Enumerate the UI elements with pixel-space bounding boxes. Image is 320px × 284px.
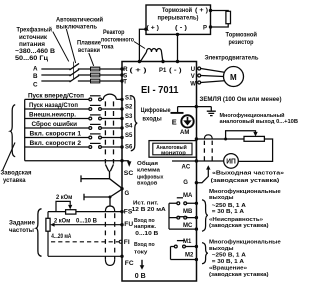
svg-text:постоянного: постоянного: [101, 38, 134, 44]
svg-text:Плавкие: Плавкие: [77, 41, 102, 47]
svg-text:0...10 В: 0...10 В: [76, 218, 98, 224]
svg-text:AM: AM: [180, 130, 189, 136]
svg-text:~250 В, 1 А: ~250 В, 1 А: [212, 203, 247, 209]
svg-text:выключатель: выключатель: [56, 25, 97, 31]
svg-text:P1: P1: [159, 68, 167, 74]
svg-text:T: T: [123, 80, 127, 86]
svg-text:Многофункциональный: Многофункциональный: [220, 112, 285, 119]
svg-text:частоты: частоты: [9, 228, 34, 234]
svg-text:U: U: [191, 67, 195, 73]
svg-text:S: S: [123, 73, 127, 79]
svg-text:прерыватель): прерыватель): [158, 16, 199, 22]
svg-text:«Выходная частота»: «Выходная частота»: [212, 170, 284, 176]
svg-text:( + ): ( + ): [147, 25, 160, 31]
svg-text:Сброс ошибки: Сброс ошибки: [32, 121, 78, 128]
svg-text:(заводская уставка): (заводская уставка): [209, 272, 269, 278]
svg-text:Автоматический: Автоматический: [56, 17, 103, 24]
svg-text:S3: S3: [125, 114, 133, 120]
svg-text:FU: FU: [124, 221, 133, 228]
svg-text:(заводская уставка): (заводская уставка): [211, 178, 280, 184]
svg-text:~380...460 В: ~380...460 В: [15, 49, 56, 55]
svg-text:G: G: [183, 180, 188, 186]
svg-text:источник: источник: [19, 35, 47, 41]
svg-text:( - ): ( - ): [169, 68, 182, 74]
svg-text:М: М: [230, 73, 237, 82]
svg-text:Реактор: Реактор: [103, 30, 125, 36]
svg-text:В: В: [33, 73, 38, 80]
svg-text:P: P: [203, 25, 207, 31]
svg-text:выходы: выходы: [209, 246, 234, 252]
svg-text:цифровых: цифровых: [137, 173, 164, 180]
svg-text:MC: MC: [183, 223, 193, 229]
svg-text:Многофункциональные: Многофункциональные: [209, 239, 281, 246]
svg-text:Вход по: Вход по: [134, 242, 155, 248]
svg-text:вставки: вставки: [78, 48, 100, 54]
svg-text:S4: S4: [125, 124, 133, 130]
svg-text:Пуск вперед/Стоп: Пуск вперед/Стоп: [28, 93, 84, 99]
svg-text:Вкл. скорости 2: Вкл. скорости 2: [30, 141, 82, 147]
svg-text:S6: S6: [125, 145, 133, 151]
svg-text:клемма: клемма: [137, 167, 161, 173]
svg-text:0...10 В: 0...10 В: [135, 231, 158, 237]
svg-text:А: А: [33, 65, 38, 72]
svg-text:MA: MA: [183, 193, 193, 199]
svg-text:напряж.: напряж.: [134, 224, 156, 230]
svg-text:Вкл. скорости 1: Вкл. скорости 1: [30, 132, 82, 138]
svg-text:входы: входы: [142, 117, 161, 123]
svg-text:Пуск назад/Стоп: Пуск назад/Стоп: [29, 103, 78, 109]
svg-text:Общая: Общая: [137, 160, 158, 167]
svg-text:W: W: [190, 81, 196, 87]
svg-text:питания: питания: [19, 42, 46, 48]
svg-text:50...60 Гц: 50...60 Гц: [15, 56, 48, 62]
svg-text:0 В: 0 В: [135, 273, 146, 280]
svg-text:12 В 20 мА: 12 В 20 мА: [132, 207, 167, 213]
svg-text:выходы: выходы: [209, 195, 234, 201]
svg-text:( + ): ( + ): [195, 8, 208, 14]
svg-text:Электродвигатель: Электродвигатель: [205, 55, 259, 61]
svg-text:«Вращение»: «Вращение»: [209, 266, 247, 272]
svg-text:Ист. пит.: Ист. пит.: [133, 200, 159, 206]
svg-text:Задание: Задание: [9, 220, 36, 226]
svg-text:AC: AC: [182, 165, 191, 171]
svg-text:Цифровые: Цифровые: [141, 107, 172, 114]
svg-text:S5: S5: [125, 133, 133, 139]
svg-text:( + ): ( + ): [130, 68, 147, 74]
svg-text:FI: FI: [124, 239, 130, 246]
svg-text:тока: тока: [101, 45, 114, 51]
svg-text:R: R: [123, 67, 128, 73]
svg-text:S2: S2: [125, 105, 133, 111]
svg-text:С: С: [33, 81, 38, 88]
svg-text:EI - 7011: EI - 7011: [141, 85, 179, 96]
svg-text:Многофункциональные: Многофункциональные: [209, 188, 281, 195]
svg-text:FC: FC: [125, 260, 134, 267]
svg-text:2 кОм: 2 кОм: [54, 218, 71, 224]
svg-text:Е: Е: [172, 117, 177, 126]
svg-text:ЗЕМЛЯ (100 Ом или менее): ЗЕМЛЯ (100 Ом или менее): [200, 97, 282, 103]
svg-text:4...20 мА: 4...20 мА: [51, 234, 72, 240]
svg-text:монитор: монитор: [161, 151, 186, 157]
svg-text:аналоговый выход 0...+10В: аналоговый выход 0...+10В: [220, 118, 299, 125]
svg-text:(заводская уставка): (заводская уставка): [209, 223, 269, 229]
svg-text:SC: SC: [124, 170, 134, 177]
svg-text:резистор: резистор: [229, 40, 254, 46]
svg-text:( - ): ( - ): [175, 25, 187, 31]
svg-text:~250 В, 1 А: ~250 В, 1 А: [212, 253, 247, 259]
svg-text:V: V: [191, 74, 195, 80]
svg-text:Вход по: Вход по: [134, 218, 155, 224]
svg-text:Заводская: Заводская: [1, 170, 32, 176]
svg-text:M1: M1: [183, 239, 192, 245]
svg-text:току: току: [134, 249, 148, 255]
svg-text:Трехфазный: Трехфазный: [17, 27, 53, 34]
svg-text:Тормозной: Тормозной: [226, 31, 258, 38]
svg-text:уставка: уставка: [3, 178, 26, 184]
svg-text:= 30 В, 1 А: = 30 В, 1 А: [212, 259, 245, 265]
svg-text:G: G: [125, 191, 130, 197]
svg-text:Тормозной: Тормозной: [162, 7, 192, 14]
svg-text:2 кОм: 2 кОм: [56, 195, 73, 201]
svg-text:MB: MB: [183, 209, 193, 215]
svg-text:= 30 В, 1 А: = 30 В, 1 А: [212, 209, 245, 215]
svg-text:ИП: ИП: [226, 158, 236, 165]
svg-text:входов: входов: [137, 181, 158, 187]
svg-text:Внешн.неиспр.: Внешн.неиспр.: [29, 113, 76, 119]
svg-text:M2: M2: [185, 252, 194, 258]
